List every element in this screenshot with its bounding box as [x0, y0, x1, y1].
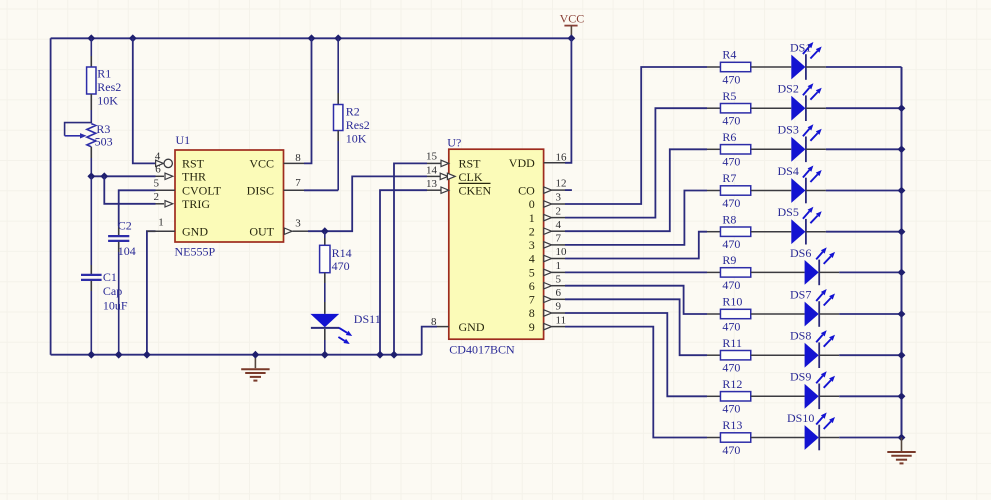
- svg-text:470: 470: [332, 259, 350, 273]
- wire U1 GND to rail: [147, 231, 156, 355]
- svg-text:12: 12: [556, 178, 567, 190]
- U2 pin 7 output 3 lead: [544, 233, 565, 249]
- ground symbol left: [241, 355, 269, 381]
- svg-text:C1: C1: [103, 270, 117, 284]
- svg-text:DS8: DS8: [790, 329, 811, 343]
- svg-text:2: 2: [529, 224, 535, 238]
- svg-text:THR: THR: [182, 170, 206, 184]
- U2 pin 2 output 1 lead: [544, 205, 565, 221]
- svg-text:DS9: DS9: [790, 370, 811, 384]
- node THR junction: [87, 172, 108, 180]
- svg-text:3: 3: [295, 218, 301, 230]
- svg-text:4: 4: [155, 151, 161, 163]
- wire output 7 to resistor R11 row: [565, 299, 707, 355]
- svg-text:R4: R4: [722, 48, 736, 62]
- svg-text:7: 7: [295, 177, 301, 189]
- svg-text:4: 4: [529, 252, 535, 266]
- svg-text:VDD: VDD: [509, 156, 535, 170]
- svg-text:470: 470: [722, 319, 740, 333]
- svg-text:R6: R6: [722, 130, 736, 144]
- svg-text:Res2: Res2: [346, 118, 370, 132]
- wire LED cathode bus: [901, 67, 903, 438]
- U1 pin 8 VCC lead: [284, 38, 312, 164]
- svg-text:DS11: DS11: [354, 312, 381, 326]
- LED DS8: [790, 329, 902, 368]
- svg-text:8: 8: [529, 306, 535, 320]
- wire output 4 to resistor R8 row: [565, 232, 707, 259]
- svg-text:5: 5: [556, 273, 562, 285]
- resistor R2: [334, 38, 370, 190]
- LED DS6: [790, 246, 902, 285]
- U1 pin 6 THR lead: [155, 164, 173, 180]
- svg-text:DS1: DS1: [790, 40, 811, 54]
- svg-text:NE555P: NE555P: [175, 244, 216, 258]
- resistor R4: [707, 48, 791, 87]
- svg-text:R2: R2: [346, 104, 360, 118]
- node bus junctions: [898, 104, 906, 441]
- svg-text:U1: U1: [176, 133, 191, 147]
- op-amp U1 NE555P chip body: [175, 133, 284, 259]
- ground symbol right: [887, 438, 915, 464]
- svg-text:DS10: DS10: [787, 411, 814, 425]
- svg-text:DS6: DS6: [790, 246, 811, 260]
- svg-text:R1: R1: [97, 67, 111, 81]
- U2 pin 13 CKEN lead: [426, 178, 449, 193]
- wire output 2 to resistor R6 row: [565, 149, 707, 231]
- svg-text:470: 470: [722, 361, 740, 375]
- LED DS4: [778, 164, 902, 203]
- svg-text:R5: R5: [722, 89, 736, 103]
- U2 pin 8 GND lead: [431, 316, 449, 328]
- svg-text:R14: R14: [332, 246, 352, 260]
- wire output 8 to resistor R12 row: [565, 313, 707, 396]
- svg-text:470: 470: [722, 114, 740, 128]
- LED DS9: [790, 370, 902, 409]
- svg-text:10: 10: [556, 246, 568, 258]
- U2 pin 4 output 2 lead: [544, 219, 565, 235]
- node OUT junction: [321, 227, 329, 235]
- svg-text:6: 6: [556, 287, 562, 299]
- svg-text:1: 1: [158, 217, 164, 229]
- svg-text:2: 2: [556, 205, 562, 217]
- svg-text:R11: R11: [722, 336, 742, 350]
- resistor R10: [707, 295, 805, 334]
- U2 pin 12 CO stub: [544, 178, 572, 194]
- svg-text:3: 3: [556, 192, 562, 204]
- svg-text:104: 104: [118, 244, 136, 258]
- LED DS2: [778, 82, 902, 121]
- svg-text:VCC: VCC: [249, 157, 274, 171]
- svg-text:470: 470: [722, 402, 740, 416]
- U2 pin 9 output 8 lead: [544, 301, 565, 317]
- svg-text:10K: 10K: [346, 131, 367, 145]
- wire RST riser to rail: [394, 163, 427, 354]
- node bottom rail junctions: [87, 351, 398, 359]
- resistor R11: [707, 336, 805, 375]
- LED DS11: [310, 302, 380, 355]
- U2 pin 14 CLK lead: [426, 164, 455, 179]
- U2 pin 5 output 6 lead: [544, 273, 565, 289]
- svg-text:9: 9: [556, 301, 562, 313]
- svg-text:470: 470: [722, 443, 740, 457]
- svg-text:470: 470: [722, 72, 740, 86]
- U2 pin names: [459, 156, 536, 334]
- wire left loop vertical: [50, 38, 52, 354]
- svg-text:U?: U?: [447, 135, 461, 149]
- svg-text:2: 2: [154, 191, 160, 203]
- resistor R14: [320, 231, 352, 302]
- svg-text:GND: GND: [459, 320, 485, 334]
- wire VCC top rail: [51, 37, 572, 39]
- LED DS5: [778, 205, 902, 244]
- svg-text:1: 1: [529, 211, 535, 225]
- node VCC rail junctions: [87, 34, 575, 42]
- wire U2 GND to rail: [422, 327, 437, 355]
- svg-text:VCC: VCC: [560, 12, 585, 26]
- svg-text:GND: GND: [182, 224, 208, 238]
- wire output 3 to resistor R7 row: [565, 191, 707, 245]
- svg-text:5: 5: [529, 266, 535, 280]
- U1 pin 2 TRIG lead: [154, 191, 173, 207]
- resistor R5: [707, 89, 791, 128]
- wire output 1 to resistor R5 row: [565, 108, 707, 217]
- U1 pin names: [182, 157, 275, 239]
- svg-text:CD4017BCN: CD4017BCN: [449, 343, 515, 357]
- svg-text:R12: R12: [722, 377, 742, 391]
- svg-text:OUT: OUT: [249, 224, 274, 238]
- svg-text:R7: R7: [722, 171, 736, 185]
- svg-text:6: 6: [155, 164, 161, 176]
- LED DS1: [790, 40, 902, 79]
- svg-text:DS4: DS4: [778, 164, 799, 178]
- U2 pin 11 output 9 lead: [544, 314, 566, 330]
- svg-text:470: 470: [722, 237, 740, 251]
- U1 pin 5 CVOLT lead: [154, 177, 175, 190]
- svg-text:DS2: DS2: [778, 82, 799, 96]
- svg-text:R13: R13: [722, 418, 742, 432]
- U1 pin 3 OUT lead: [284, 218, 325, 235]
- svg-text:6: 6: [529, 279, 535, 293]
- resistor R1: [87, 38, 122, 123]
- svg-text:13: 13: [426, 178, 438, 190]
- svg-text:7: 7: [529, 293, 535, 307]
- svg-text:R8: R8: [722, 212, 736, 226]
- svg-text:CVOLT: CVOLT: [182, 184, 222, 198]
- U2 pin 3 output 0 lead: [544, 192, 565, 208]
- U2 pin 15 RST lead: [426, 151, 449, 167]
- power VCC symbol: [560, 12, 585, 39]
- wire RST riser from VCC rail: [133, 38, 155, 163]
- wire GND bottom rail: [51, 354, 422, 356]
- svg-text:4: 4: [556, 219, 562, 231]
- svg-text:11: 11: [556, 314, 567, 326]
- wire OUT to CLK riser: [325, 176, 427, 231]
- svg-text:10K: 10K: [97, 94, 118, 108]
- potentiometer R3: [65, 122, 113, 176]
- wire CKEN riser to rail: [380, 190, 427, 355]
- svg-text:R9: R9: [722, 253, 736, 267]
- wire THR node to U1: [91, 175, 155, 177]
- resistor R12: [707, 377, 805, 416]
- LED DS10: [787, 411, 902, 450]
- svg-text:470: 470: [722, 196, 740, 210]
- capacitor C1: [81, 176, 128, 354]
- resistor R9: [707, 253, 805, 292]
- svg-text:5: 5: [154, 177, 160, 189]
- svg-text:503: 503: [95, 135, 113, 149]
- wire CVOLT branch: [119, 190, 156, 226]
- svg-text:Res2: Res2: [97, 80, 121, 94]
- U2 pin 1 output 5 lead: [544, 260, 565, 276]
- U2 pin 16 VDD lead and VCC riser: [544, 38, 572, 163]
- svg-text:14: 14: [426, 164, 438, 176]
- resistor R8: [707, 212, 791, 251]
- svg-text:DS3: DS3: [778, 123, 799, 137]
- resistor R13: [707, 418, 805, 457]
- svg-text:R10: R10: [722, 295, 742, 309]
- LED DS7: [790, 287, 902, 326]
- svg-text:1: 1: [556, 260, 562, 272]
- svg-text:0: 0: [529, 197, 535, 211]
- svg-text:8: 8: [431, 316, 437, 328]
- svg-text:15: 15: [426, 151, 438, 163]
- svg-text:Cap: Cap: [103, 284, 122, 298]
- wire output 6 to resistor R10 row: [565, 286, 707, 314]
- U2 pin 6 output 7 lead: [544, 287, 565, 303]
- U1 pin 7 DISC lead: [284, 177, 339, 190]
- U1 pin 4 RST lead with inverter circle: [155, 151, 173, 168]
- svg-text:3: 3: [529, 238, 535, 252]
- capacitor C2: [108, 218, 136, 354]
- svg-text:470: 470: [722, 278, 740, 292]
- svg-text:DISC: DISC: [247, 184, 274, 198]
- svg-text:RST: RST: [459, 157, 482, 171]
- svg-text:7: 7: [556, 233, 562, 245]
- wire output 5 to resistor R9 row: [565, 271, 707, 273]
- resistor R7: [707, 171, 791, 210]
- svg-text:RST: RST: [182, 157, 205, 171]
- svg-text:8: 8: [295, 152, 301, 164]
- op-amp U2 CD4017BCN chip body: [447, 135, 543, 356]
- svg-text:CKEN: CKEN: [459, 184, 492, 198]
- LED DS3: [778, 123, 902, 162]
- wire TRIG branch: [104, 176, 155, 204]
- svg-text:CLK: CLK: [459, 170, 483, 184]
- svg-text:9: 9: [529, 320, 535, 334]
- svg-text:C2: C2: [118, 218, 132, 232]
- wire output 9 to resistor R13 row: [565, 327, 707, 438]
- svg-text:16: 16: [556, 151, 568, 163]
- svg-text:CO: CO: [518, 183, 535, 197]
- wire output 0 to resistor R4 row: [565, 67, 707, 204]
- svg-text:10uF: 10uF: [103, 299, 128, 313]
- resistor R6: [707, 130, 791, 169]
- svg-text:DS5: DS5: [778, 205, 799, 219]
- U1 pin 1 GND lead: [147, 217, 175, 232]
- svg-text:DS7: DS7: [790, 287, 811, 301]
- svg-text:TRIG: TRIG: [182, 197, 210, 211]
- svg-text:470: 470: [722, 155, 740, 169]
- U2 pin 10 output 4 lead: [544, 246, 567, 262]
